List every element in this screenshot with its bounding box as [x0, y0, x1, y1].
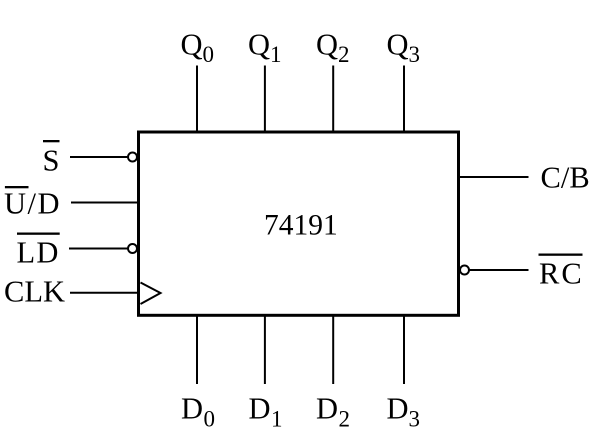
pin label D3 — [387, 392, 421, 432]
svg-text:2: 2 — [338, 42, 350, 67]
pin label S (active-low, overline) — [43, 140, 60, 178]
pin label Q0 — [181, 28, 215, 68]
pin label Q1 — [248, 28, 282, 68]
svg-text:RC: RC — [539, 256, 584, 290]
pin label RC (active-low, overline) — [539, 254, 584, 291]
svg-text:Q: Q — [387, 28, 409, 62]
inversion bubble on RC output — [460, 266, 469, 275]
wire Q0 (top pin) — [196, 66, 198, 133]
wire LD input — [69, 248, 128, 250]
wire Q2 (top pin) — [332, 66, 334, 133]
wire RC output — [470, 269, 529, 271]
wire C/B output — [459, 176, 529, 178]
svg-text:0: 0 — [204, 407, 216, 432]
pin label D2 — [316, 392, 350, 432]
wire CLK input — [70, 292, 138, 294]
wire D3 (bottom pin) — [403, 315, 405, 384]
wire S input — [70, 156, 128, 158]
svg-text:0: 0 — [203, 42, 215, 67]
svg-text:1: 1 — [270, 42, 282, 67]
svg-text:CLK: CLK — [4, 275, 65, 309]
svg-text:3: 3 — [409, 42, 421, 67]
svg-text:C/B: C/B — [541, 161, 590, 195]
pin label Q2 — [316, 28, 350, 68]
svg-text:1: 1 — [271, 407, 283, 432]
svg-text:D: D — [387, 392, 409, 426]
pin label LD (active-low, overline) — [17, 233, 60, 270]
svg-text:3: 3 — [409, 407, 421, 432]
wire Q1 (top pin) — [264, 66, 266, 133]
svg-text:S: S — [43, 144, 60, 178]
svg-text:Q: Q — [316, 28, 338, 62]
svg-text:Q: Q — [181, 28, 203, 62]
wire Q3 (top pin) — [403, 66, 405, 133]
svg-text:LD: LD — [17, 236, 60, 270]
inversion bubble on LD input — [128, 244, 137, 253]
svg-text:Q: Q — [248, 28, 270, 62]
wire U/D input — [71, 202, 138, 204]
svg-text:74191: 74191 — [264, 210, 338, 242]
inversion bubble on S input — [128, 153, 137, 162]
pin label U/D (overline on U) — [4, 186, 61, 221]
wire D2 (bottom pin) — [332, 315, 334, 384]
clock edge-trigger triangle — [141, 283, 161, 305]
pin label D1 — [249, 392, 283, 432]
svg-text:D: D — [249, 392, 271, 426]
wire D1 (bottom pin) — [264, 315, 266, 384]
svg-text:D: D — [181, 392, 203, 426]
IC body U1 (74191) — [139, 132, 459, 315]
pin label D0 — [181, 392, 215, 432]
wire D0 (bottom pin) — [196, 315, 198, 384]
svg-text:D: D — [316, 392, 338, 426]
pin label Q3 — [387, 28, 421, 68]
svg-text:2: 2 — [339, 407, 351, 432]
svg-text:U/D: U/D — [4, 187, 61, 221]
